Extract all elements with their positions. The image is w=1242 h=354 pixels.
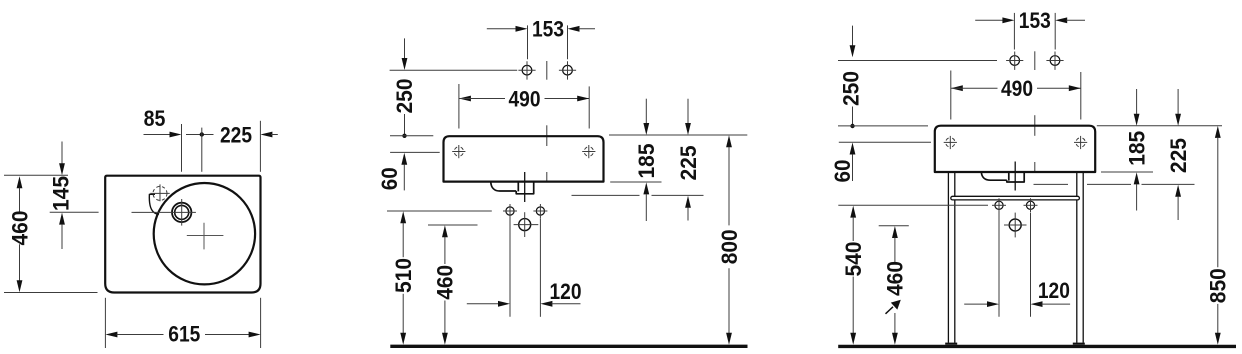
svg-text:85: 85 <box>144 106 166 131</box>
svg-text:490: 490 <box>1001 76 1033 101</box>
svg-text:153: 153 <box>532 17 564 42</box>
svg-text:225: 225 <box>1166 138 1191 173</box>
svg-text:250: 250 <box>392 79 417 114</box>
svg-text:460: 460 <box>8 211 33 246</box>
svg-text:120: 120 <box>550 279 582 304</box>
svg-text:460: 460 <box>883 261 908 296</box>
svg-text:225: 225 <box>676 146 701 181</box>
svg-text:615: 615 <box>168 321 200 346</box>
svg-text:185: 185 <box>634 144 659 179</box>
svg-text:460: 460 <box>433 265 458 300</box>
svg-text:850: 850 <box>1206 268 1231 303</box>
svg-text:145: 145 <box>49 176 74 211</box>
svg-text:60: 60 <box>377 167 402 190</box>
svg-text:510: 510 <box>391 258 416 293</box>
svg-text:540: 540 <box>841 242 866 277</box>
svg-text:60: 60 <box>830 160 855 183</box>
svg-text:800: 800 <box>717 229 742 264</box>
svg-text:185: 185 <box>1124 131 1149 166</box>
svg-text:250: 250 <box>839 71 864 106</box>
svg-text:490: 490 <box>509 86 541 111</box>
svg-text:225: 225 <box>220 122 252 147</box>
svg-text:153: 153 <box>1019 8 1051 33</box>
svg-text:120: 120 <box>1038 278 1070 303</box>
